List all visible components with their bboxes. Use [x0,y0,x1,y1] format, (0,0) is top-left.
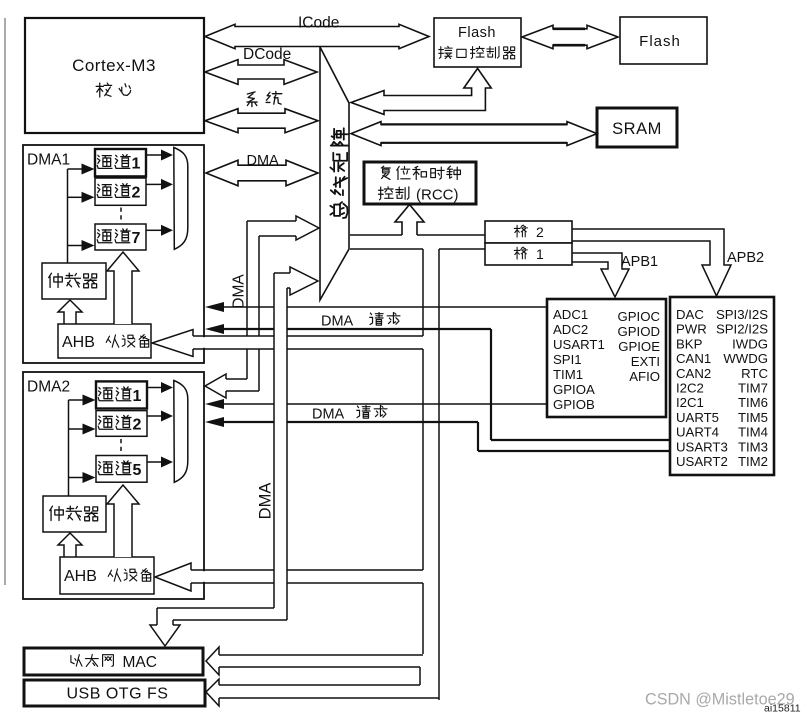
svg-text:WWDG: WWDG [723,351,768,366]
svg-text:DMA1: DMA1 [27,152,70,169]
svg-text:DAC: DAC [676,307,704,322]
svg-text:2: 2 [536,224,544,240]
svg-text:DMA: DMA [231,274,248,309]
svg-text:Flash: Flash [639,33,681,50]
svg-text:I2C1: I2C1 [676,395,704,410]
svg-text:7: 7 [132,230,141,247]
svg-text:CAN1: CAN1 [676,351,711,366]
svg-text:USART2: USART2 [676,454,728,469]
svg-text:APB2: APB2 [727,250,764,266]
svg-text:GPIOD: GPIOD [618,324,661,339]
svg-text:MAC: MAC [123,654,157,671]
svg-text:SPI2/I2S: SPI2/I2S [716,322,768,337]
svg-text:DMA: DMA [257,483,275,520]
svg-text:2: 2 [133,417,142,434]
svg-text:1: 1 [536,246,544,262]
svg-text:2: 2 [132,185,141,202]
svg-text:DMA: DMA [312,407,345,423]
svg-text:UART4: UART4 [676,425,719,440]
svg-text:TIM4: TIM4 [738,425,768,440]
svg-text:GPIOE: GPIOE [618,339,660,354]
svg-text:GPIOA: GPIOA [553,382,595,397]
svg-text:AHB: AHB [62,334,95,351]
svg-text:USART1: USART1 [553,337,605,352]
svg-text:ADC1: ADC1 [553,307,588,322]
svg-text:TIM2: TIM2 [738,454,768,469]
svg-text:TIM1: TIM1 [553,367,583,382]
svg-text:RTC: RTC [741,366,768,381]
svg-text:GPIOC: GPIOC [618,309,661,324]
svg-text:DMA: DMA [321,314,354,330]
svg-text:ai15811: ai15811 [764,703,801,715]
svg-text:SRAM: SRAM [612,120,662,138]
svg-text:(RCC): (RCC) [416,187,459,204]
svg-text:AFIO: AFIO [629,369,660,384]
svg-text:EXTI: EXTI [631,354,660,369]
svg-text:CAN2: CAN2 [676,366,711,381]
svg-text:AHB: AHB [64,568,97,585]
svg-text:USB OTG FS: USB OTG FS [67,686,169,703]
svg-text:DMA2: DMA2 [27,379,70,396]
svg-text:5: 5 [133,462,142,479]
svg-text:SPI3/I2S: SPI3/I2S [716,307,768,322]
svg-text:ADC2: ADC2 [553,322,588,337]
svg-text:DCode: DCode [243,46,291,63]
svg-text:TIM7: TIM7 [738,381,768,396]
svg-text:ICode: ICode [298,15,339,32]
svg-text:UART5: UART5 [676,410,719,425]
svg-text:PWR: PWR [676,322,707,337]
svg-text:TIM3: TIM3 [738,439,768,454]
svg-text:1: 1 [133,388,142,405]
svg-text:DMA: DMA [247,153,280,169]
svg-text:APB1: APB1 [621,254,658,270]
svg-text:GPIOB: GPIOB [553,397,595,412]
svg-text:Cortex-M3: Cortex-M3 [72,56,156,75]
svg-text:SPI1: SPI1 [553,352,582,367]
svg-text:USART3: USART3 [676,439,728,454]
svg-text:BKP: BKP [676,336,703,351]
svg-text:1: 1 [132,156,141,173]
svg-text:I2C2: I2C2 [676,381,704,396]
svg-text:IWDG: IWDG [732,336,768,351]
svg-text:Flash: Flash [458,25,496,41]
svg-text:TIM6: TIM6 [738,395,768,410]
svg-text:TIM5: TIM5 [738,410,768,425]
